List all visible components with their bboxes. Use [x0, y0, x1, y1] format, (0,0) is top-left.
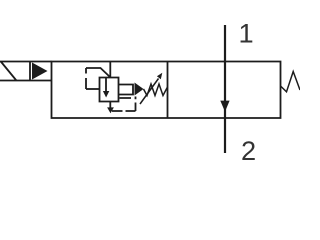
svg-text:1: 1	[239, 18, 254, 49]
flow line port 1 to port 2	[224, 25, 226, 153]
actuator arrow head	[135, 83, 144, 96]
main stage spring	[281, 72, 301, 92]
pilot valve body	[100, 78, 119, 102]
solenoid link lines	[30, 62, 52, 81]
pilot line dashed vertical	[85, 68, 87, 89]
pilot line to valve left side	[86, 88, 100, 90]
solenoid coil box	[0, 62, 30, 81]
pilot valve flow arrow	[105, 78, 107, 92]
pilot supply stub	[109, 62, 111, 78]
envelope divider	[167, 62, 169, 119]
drain line dashed	[112, 97, 136, 112]
drain junction arrow	[109, 102, 111, 109]
adjustable spring	[144, 84, 168, 96]
main flow arrow	[220, 101, 229, 112]
svg-text:2: 2	[241, 135, 256, 166]
valve envelope	[52, 62, 281, 119]
spring adjustment arrow	[140, 79, 159, 105]
pilot line diagonal	[86, 68, 110, 77]
spring seat box	[119, 85, 133, 95]
solenoid arrow	[32, 63, 48, 80]
